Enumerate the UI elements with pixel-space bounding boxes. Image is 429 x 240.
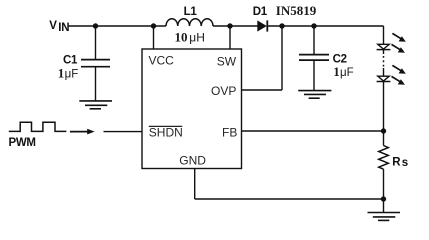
wire C2 to ground <box>313 60 315 90</box>
svg-text:FB: FB <box>222 126 237 140</box>
dotted continuation between LEDs <box>383 56 385 67</box>
LED D3 (bottom) <box>377 76 391 81</box>
LED D2 emission arrows <box>392 33 406 52</box>
svg-text:10: 10 <box>175 29 188 44</box>
ground C2 <box>298 91 331 99</box>
resistor Rs <box>379 146 389 170</box>
wire C2 branch down <box>313 26 315 54</box>
wire above LED D3 <box>383 68 385 76</box>
wire L1 to D1 anode <box>213 25 258 27</box>
svg-text:s: s <box>402 157 408 169</box>
svg-text:1: 1 <box>58 66 65 81</box>
ground bottom-right <box>368 213 401 221</box>
inductor L1 <box>166 19 213 26</box>
wire PWM to SHDN pin <box>104 131 143 133</box>
svg-text:IN5819: IN5819 <box>276 3 317 18</box>
wire top rail from VIN to L1 <box>68 25 167 27</box>
junction top rail at SW <box>227 23 232 28</box>
svg-text:PWM: PWM <box>9 137 36 149</box>
wire below LED D2 <box>383 50 385 54</box>
node bottom junction <box>381 196 386 201</box>
wire LED string to FB node <box>383 82 385 132</box>
svg-text:μF: μF <box>340 67 354 79</box>
node VIN label <box>49 20 69 34</box>
junction top rail at C1 <box>93 23 98 28</box>
svg-text:V: V <box>49 20 57 32</box>
wire GND pin down and right <box>195 169 384 200</box>
wire to bottom ground <box>383 199 385 212</box>
svg-text:μH: μH <box>189 30 205 44</box>
pin label SHDN (with overline) <box>149 125 183 139</box>
arrow PWM input <box>70 129 95 135</box>
svg-text:SW: SW <box>217 55 237 69</box>
LED D2 (top) <box>377 44 391 49</box>
svg-text:GND: GND <box>179 154 206 168</box>
svg-text:OVP: OVP <box>211 84 236 98</box>
capacitor C1 <box>81 60 110 67</box>
op-amp/IC U1 box <box>142 49 242 169</box>
svg-text:C1: C1 <box>63 55 78 67</box>
junction top rail at C2 <box>311 23 316 28</box>
svg-text:R: R <box>392 156 401 168</box>
value label 10uH <box>175 29 205 44</box>
value label 1uF (C1) <box>58 66 78 81</box>
diode D1 <box>257 20 267 31</box>
capacitor C2 <box>299 55 329 61</box>
svg-text:SHDN: SHDN <box>149 125 183 139</box>
svg-text:VCC: VCC <box>149 54 175 68</box>
node FB junction <box>381 128 386 133</box>
wire FB pin to FB node <box>242 130 384 132</box>
svg-text:L1: L1 <box>184 6 198 18</box>
wire C1 to ground <box>95 67 97 101</box>
ground C1 <box>79 101 112 109</box>
wire D1 cathode to LED string corner <box>267 25 383 27</box>
svg-text:1: 1 <box>333 64 340 79</box>
junction top rail at VCC <box>151 23 156 28</box>
wire LED branch down from rail <box>383 26 385 44</box>
value label 1uF (C2) <box>333 64 353 79</box>
wire FB node to Rs <box>383 131 385 146</box>
svg-text:D1: D1 <box>253 6 268 18</box>
wire SW pin <box>229 26 231 49</box>
svg-text:μF: μF <box>65 69 79 81</box>
wire C1 branch down <box>95 26 97 59</box>
svg-text:IN: IN <box>58 22 69 34</box>
wire Rs to bottom node <box>383 169 385 199</box>
wire OVP to top rail <box>242 26 283 90</box>
wire VCC pin <box>153 26 155 49</box>
PWM square wave symbol <box>9 122 67 131</box>
junction top rail at OVP <box>279 23 284 28</box>
LED D3 emission arrows <box>392 65 406 84</box>
label Rs <box>392 156 408 169</box>
